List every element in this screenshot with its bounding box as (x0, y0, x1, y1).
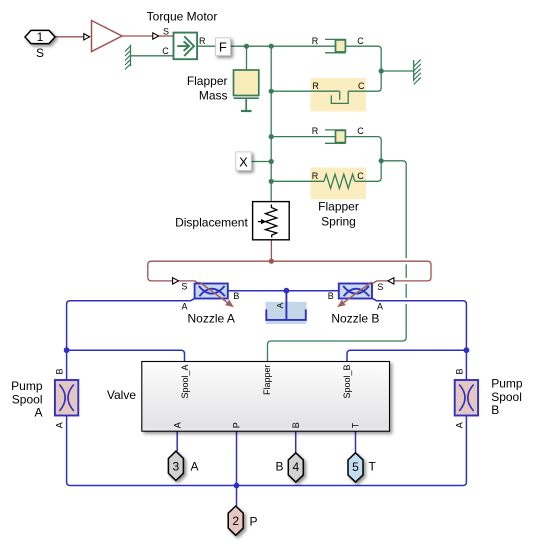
svg-text:Flapper: Flapper (262, 364, 272, 395)
svg-text:Spool: Spool (12, 392, 43, 406)
svg-text:B: B (233, 291, 239, 301)
svg-text:Mass: Mass (199, 89, 228, 103)
svg-text:R: R (199, 36, 206, 46)
svg-text:P: P (232, 422, 242, 428)
svg-text:Spring: Spring (321, 215, 356, 229)
svg-text:Flapper: Flapper (187, 74, 228, 88)
svg-text:4: 4 (292, 460, 299, 474)
svg-text:5: 5 (352, 460, 359, 474)
svg-text:B: B (291, 422, 301, 428)
svg-text:Displacement: Displacement (175, 216, 248, 230)
svg-text:P: P (250, 515, 258, 529)
svg-text:Spool_B: Spool_B (342, 365, 352, 399)
svg-text:A: A (275, 302, 285, 308)
svg-text:C: C (162, 46, 169, 56)
svg-text:Nozzle A: Nozzle A (188, 312, 235, 326)
svg-text:Flapper: Flapper (318, 200, 359, 214)
svg-text:A: A (181, 301, 187, 311)
svg-text:R: R (312, 171, 319, 181)
svg-text:R: R (312, 81, 319, 91)
svg-text:S: S (181, 282, 187, 292)
svg-text:X: X (239, 155, 248, 170)
svg-text:Torque Motor: Torque Motor (147, 10, 218, 24)
svg-text:B: B (275, 460, 283, 474)
svg-text:R: R (312, 36, 319, 46)
svg-text:S: S (163, 27, 169, 37)
svg-text:3: 3 (173, 459, 180, 473)
svg-text:S: S (36, 46, 44, 60)
svg-text:A: A (454, 422, 464, 428)
svg-text:B: B (55, 368, 65, 374)
svg-text:C: C (357, 171, 364, 181)
svg-text:1: 1 (37, 30, 44, 44)
svg-text:C: C (357, 126, 364, 136)
svg-text:Valve: Valve (107, 388, 136, 402)
svg-text:Spool_A: Spool_A (180, 365, 190, 399)
svg-text:Nozzle B: Nozzle B (331, 312, 379, 326)
svg-text:A: A (55, 422, 65, 428)
svg-text:A: A (377, 301, 383, 311)
svg-text:2: 2 (232, 514, 239, 528)
svg-text:B: B (491, 403, 499, 417)
svg-text:A: A (172, 422, 182, 428)
svg-text:Pump: Pump (11, 379, 43, 393)
svg-text:C: C (357, 36, 364, 46)
svg-text:Pump: Pump (491, 376, 523, 390)
svg-text:S: S (377, 282, 383, 292)
svg-text:A: A (191, 460, 199, 474)
svg-text:R: R (312, 126, 319, 136)
svg-text:B: B (454, 368, 464, 374)
svg-text:A: A (34, 406, 42, 420)
svg-text:Spool: Spool (491, 390, 522, 404)
svg-text:B: B (328, 291, 334, 301)
svg-text:T: T (351, 422, 361, 428)
svg-text:C: C (358, 81, 365, 91)
svg-text:F: F (219, 40, 227, 55)
svg-text:T: T (369, 460, 377, 474)
